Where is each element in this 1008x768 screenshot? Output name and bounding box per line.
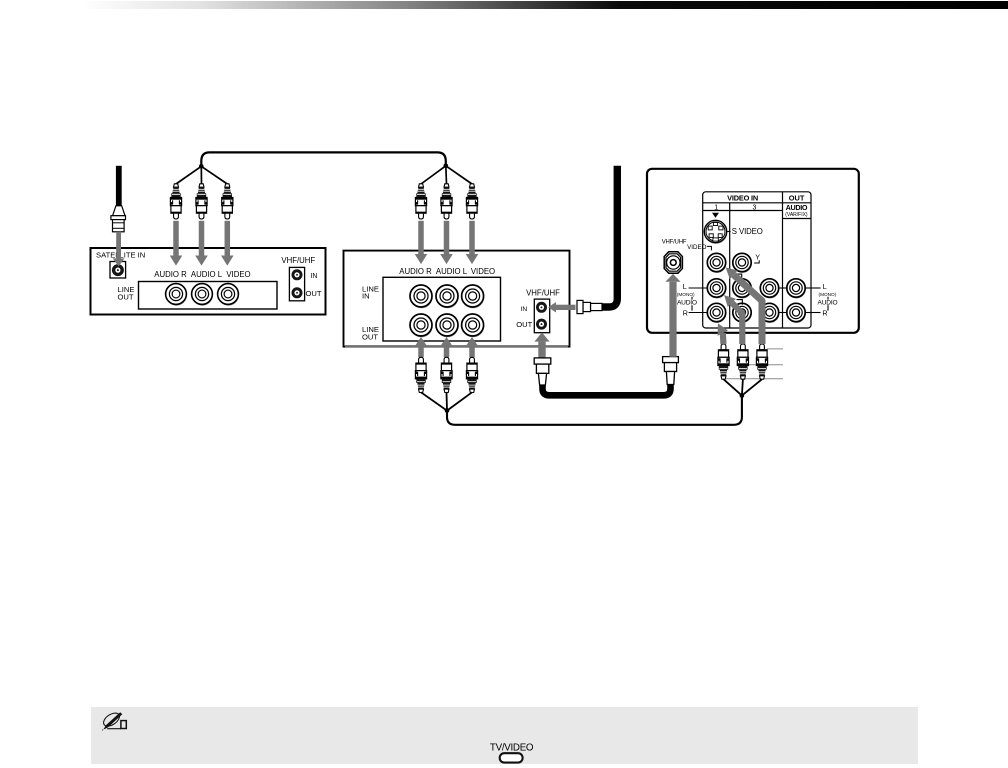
S-video connector — [704, 220, 727, 244]
plug video (VCR line out) — [466, 357, 477, 392]
svg-text:VHF/UHF: VHF/UHF — [662, 239, 687, 245]
tie line L in3-out — [779, 287, 787, 289]
label Y — [754, 252, 760, 263]
jack AUDIO L (left panel) — [192, 284, 213, 306]
label S VIDEO — [727, 227, 762, 236]
svg-text:VHF/UHF: VHF/UHF — [281, 256, 315, 265]
label LINE OUT (VCR) — [362, 325, 379, 342]
bracket lines (TV right labels) — [827, 297, 829, 311]
satellite coax cable — [116, 166, 122, 206]
arrow antenna cable to VHF IN (VCR) — [548, 302, 576, 312]
coax connector below TV VHF/UHF — [663, 357, 679, 385]
coax cable VCR OUT to TV — [543, 385, 671, 396]
triangle marker above S-video — [712, 213, 719, 218]
jack audio L in 3 (TV) — [760, 279, 779, 299]
jack audio R out (TV) — [787, 303, 806, 323]
right cable fan — [421, 164, 472, 185]
left cable fan — [176, 164, 227, 184]
svg-text:L: L — [683, 282, 687, 291]
arrow plug to AUDIO L jack (left panel) — [195, 221, 208, 266]
jack LINE OUT audio L (VCR) — [436, 314, 459, 337]
leader line video plug — [767, 348, 783, 350]
leader line audio R plug — [726, 378, 783, 380]
satellite F connector — [112, 264, 124, 276]
satellite receiver panel — [91, 248, 326, 315]
arrow plug to TV audio L jack — [724, 295, 742, 344]
plug audio R (VCR line out) — [415, 357, 426, 392]
svg-text:OUT: OUT — [362, 333, 378, 342]
table divider OUT column — [782, 192, 784, 328]
table row2 underline — [703, 210, 783, 212]
leader bracket Pr — [737, 300, 743, 305]
jack LINE IN audio L (VCR) — [436, 285, 459, 308]
coax connector below VCR OUT — [534, 358, 551, 385]
svg-text:S VIDEO: S VIDEO — [732, 227, 763, 236]
svg-text:VHF/UHF: VHF/UHF — [526, 288, 560, 297]
arrow plug to LINE OUT audio L (VCR) — [440, 337, 453, 357]
svg-text:OUT: OUT — [516, 320, 532, 329]
jack Pr in 3 (TV) — [733, 303, 752, 323]
table AUDIO cell underline — [783, 218, 812, 220]
left panel inner jack box — [139, 282, 278, 310]
label AUDIO (VAR/FIX) — [785, 203, 808, 218]
label LINE IN (VCR) — [362, 285, 379, 301]
arrow coax to TV VHF/UHF — [665, 274, 680, 357]
svg-text:VIDEO: VIDEO — [687, 244, 706, 251]
svg-text:AUDIO R: AUDIO R — [154, 270, 187, 279]
label VIDEO (TV) — [687, 244, 711, 251]
label R (TV left) — [683, 308, 708, 317]
arrow plug to LINE OUT video (VCR) — [466, 337, 479, 357]
svg-text:Y: Y — [755, 252, 760, 261]
jack LINE OUT audio R (VCR) — [410, 314, 433, 337]
VCR panel bottom edge — [345, 345, 568, 348]
svg-text:R: R — [822, 308, 827, 317]
svg-text:AUDIO L: AUDIO L — [191, 270, 223, 279]
svg-text:1: 1 — [714, 205, 718, 212]
label LINE OUT (left panel) — [118, 285, 135, 302]
arrow plug to TV audio R jack — [718, 323, 728, 344]
svg-text:(MONO): (MONO) — [677, 292, 695, 297]
jack audio L out (TV) — [787, 279, 806, 299]
svg-text:AUDIO R: AUDIO R — [399, 267, 432, 276]
VHF/UHF connector box (left panel) — [289, 267, 304, 300]
VCR panel — [344, 251, 570, 347]
top gradient bar — [81, 1, 1008, 9]
svg-text:IN: IN — [311, 273, 318, 280]
arrow satellite cable to SATELLITE IN — [113, 232, 125, 267]
TV jack table frame — [703, 192, 811, 328]
VHF IN connector (VCR) — [536, 302, 547, 313]
VHF OUT connector (left panel) — [292, 287, 303, 298]
svg-text:TV/VIDEO: TV/VIDEO — [490, 743, 534, 754]
svg-text:VIDEO: VIDEO — [471, 267, 495, 276]
satellite cable connector — [111, 206, 126, 232]
svg-text:OUT: OUT — [306, 289, 322, 298]
jack audio R in 1 (TV) — [707, 303, 726, 323]
svg-text:L: L — [823, 282, 827, 291]
jack Y in 3 (TV) — [733, 253, 752, 273]
plug audio R (VCR line in) — [415, 184, 426, 219]
VHF IN connector (left panel) — [292, 269, 303, 280]
arrow plug to AUDIO R jack (left panel) — [170, 221, 183, 266]
bracket lines (TV left labels) — [691, 297, 693, 311]
plug audio L (left set) — [196, 184, 207, 219]
plug audio L (VCR line in) — [441, 184, 452, 219]
arrow plug to VIDEO jack (left panel) — [221, 221, 234, 266]
arrow plug to TV VIDEO jack — [726, 267, 762, 344]
AV cable VCR to TV — [447, 396, 742, 425]
svg-text:VIDEO IN: VIDEO IN — [727, 194, 758, 203]
svg-text:VIDEO: VIDEO — [226, 270, 250, 279]
jack VIDEO (left panel) — [218, 284, 239, 306]
svg-text:(VAR/FIX): (VAR/FIX) — [785, 212, 808, 218]
pencil note icon — [101, 710, 126, 730]
svg-text:OUT: OUT — [789, 194, 805, 203]
label L mono (TV left) — [677, 282, 708, 297]
jack audio R in 3 (TV) — [760, 303, 779, 323]
TV/VIDEO button — [500, 753, 523, 762]
plug video (left set) — [222, 184, 233, 219]
VHF OUT connector (VCR) — [536, 319, 547, 330]
plug audio L (TV) — [737, 344, 748, 379]
plug video (VCR line in) — [466, 184, 477, 219]
satellite in connector box — [110, 262, 126, 279]
TV rear panel — [647, 169, 859, 333]
svg-text:IN: IN — [521, 306, 528, 313]
jack LINE IN video (VCR) — [462, 285, 485, 308]
arrow coax to VHF OUT (VCR) — [534, 332, 549, 357]
jack Pb in 3 (TV) — [733, 279, 752, 299]
jack LINE IN audio R (VCR) — [410, 285, 433, 308]
plug audio R (left set) — [170, 184, 181, 219]
AV cable to satellite receiver and VCR — [201, 152, 445, 166]
jack VIDEO in 1 (TV) — [707, 253, 726, 273]
antenna coax cable — [602, 166, 617, 307]
note bar — [91, 707, 918, 764]
antenna cable F connector — [577, 300, 602, 313]
table divider 1|3 — [729, 203, 731, 328]
arrow plug to LINE IN audio L (VCR) — [440, 221, 453, 264]
svg-text:AUDIO: AUDIO — [677, 299, 697, 306]
svg-text:(MONO): (MONO) — [819, 292, 837, 297]
arrow plug to LINE IN video (VCR) — [466, 221, 479, 264]
arrow plug to LINE IN audio R (VCR) — [415, 221, 428, 264]
label R (TV right) — [805, 308, 827, 317]
svg-text:AUDIO L: AUDIO L — [436, 267, 468, 276]
VCR line out cable fan — [421, 392, 472, 413]
svg-text:OUT: OUT — [118, 293, 134, 302]
plug audio R (TV) — [718, 344, 729, 379]
tie line R in3-out — [779, 312, 787, 314]
TV VHF/UHF connector — [664, 252, 683, 273]
svg-text:3: 3 — [753, 205, 757, 212]
plug video (TV) — [756, 344, 767, 379]
svg-text:IN: IN — [362, 292, 370, 301]
VHF/UHF connector box (VCR) — [534, 299, 549, 333]
leader bracket Pb — [737, 274, 742, 280]
TV cable fan — [724, 379, 763, 398]
arrow plug to LINE OUT audio R (VCR) — [415, 337, 428, 357]
jack AUDIO R (left panel) — [166, 284, 187, 306]
table header underline — [703, 202, 811, 204]
leader line audio L plug — [748, 364, 783, 366]
svg-text:R: R — [683, 308, 688, 317]
VCR inner jack box — [383, 277, 501, 341]
plug audio L (VCR line out) — [441, 357, 452, 392]
label L mono (TV right) — [805, 282, 836, 297]
jack audio L in 1 (TV) — [707, 279, 726, 299]
svg-text:AUDIO: AUDIO — [786, 203, 808, 212]
jack LINE OUT video (VCR) — [462, 314, 485, 337]
